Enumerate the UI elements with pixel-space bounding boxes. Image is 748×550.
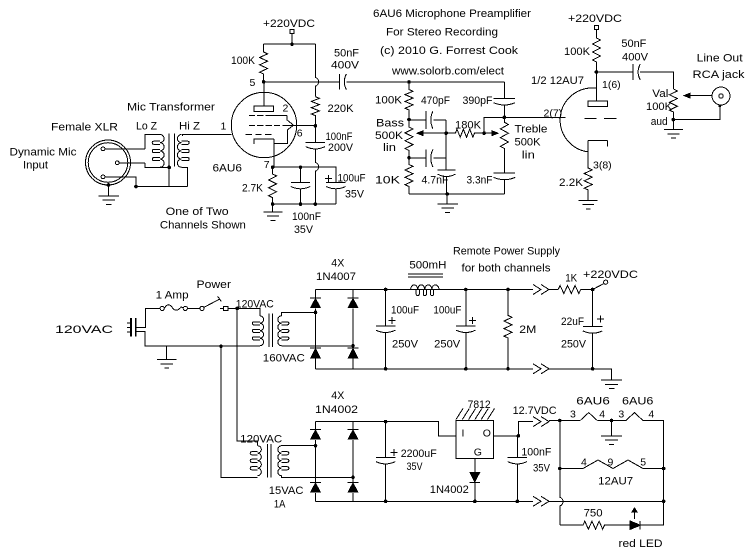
label G [474, 446, 482, 458]
svg-text:1: 1 [221, 121, 227, 133]
svg-text:7812: 7812 [468, 399, 491, 411]
capacitor C13 22uF 250V [583, 290, 602, 369]
svg-text:5: 5 [640, 457, 646, 469]
wire vol bottom to jack [673, 106, 719, 120]
label 22uF [561, 316, 584, 328]
plus sign C11 [388, 317, 395, 324]
svg-text:4X: 4X [331, 258, 345, 270]
junction dot 12AU7 plate node [595, 70, 599, 74]
bridge1 top rail [316, 289, 534, 291]
svg-text:1N4007: 1N4007 [316, 271, 356, 283]
label for both channels [462, 263, 552, 275]
svg-text:750: 750 [584, 508, 603, 520]
label Dynamic Mic [10, 147, 78, 159]
label 100K [231, 55, 256, 67]
7812 ground lead [474, 458, 476, 472]
svg-text:For Stereo Recording: For Stereo Recording [386, 27, 498, 39]
svg-text:35V: 35V [345, 189, 365, 201]
12AU7 plate lead [595, 72, 597, 101]
svg-text:3: 3 [570, 409, 576, 421]
label +220VDC psu [583, 269, 638, 281]
label 6AU6 [213, 163, 243, 175]
wire B+ right leg with hop [315, 44, 318, 96]
label 1N4002 b2 [315, 404, 358, 416]
6AU6 plate [254, 106, 273, 111]
svg-text:Remote Power Supply: Remote Power Supply [453, 246, 560, 258]
6AU6 control grid [246, 134, 272, 136]
T2 secondary top lead [282, 312, 316, 315]
pin label 1 [221, 121, 227, 133]
bass wiper arrow [417, 131, 445, 136]
svg-text:120VAC: 120VAC [240, 434, 282, 446]
T3 core [267, 444, 271, 477]
capacitor C2 100nF 200V [306, 142, 325, 149]
ground XLR [99, 196, 119, 204]
diode D3 [310, 348, 322, 359]
svg-text:500K: 500K [375, 130, 404, 142]
junction dot 12AU7 heater right [662, 467, 666, 471]
label red LED [619, 538, 663, 550]
capacitor C8 390pF [494, 82, 516, 117]
pin label 4 12au7 [581, 457, 587, 469]
capacitor C5 470pF upper [409, 111, 433, 129]
wire neutral down to T3 [221, 346, 258, 477]
wire heater return [549, 500, 664, 502]
label 120VAC T3 [240, 434, 282, 446]
capacitor C10 50nF 400V [633, 64, 640, 80]
wire bottom rail right [549, 369, 612, 380]
pin label 9 12au7 [608, 457, 614, 469]
svg-text:One of Two: One of Two [166, 206, 229, 218]
6AU6 cathode lead [273, 139, 275, 167]
svg-text:Channels Shown: Channels Shown [160, 219, 246, 231]
svg-text:RCA jack: RCA jack [693, 69, 746, 81]
pin label 4 h2 [648, 409, 654, 421]
7812 hatching [456, 409, 495, 420]
svg-text:180K: 180K [455, 120, 482, 132]
wire pin3 to ground bus [105, 177, 136, 187]
connector out bottom [533, 364, 549, 374]
svg-text:250V: 250V [561, 339, 587, 351]
regulator U1 7812 box [456, 421, 494, 459]
label 750 [584, 508, 603, 520]
wire gnd stem [272, 204, 274, 212]
resistor R14 750 [583, 521, 630, 529]
svg-text:500mH: 500mH [409, 260, 446, 272]
pin label 4 h1 [599, 409, 605, 421]
junction dot bridge1 ac2 [351, 344, 355, 348]
label 15VAC [269, 485, 304, 497]
12AU7 cathode [588, 141, 607, 147]
6AU6 screen grid [249, 124, 293, 126]
ground bus wire [136, 186, 188, 188]
wire pin2 to transformer [119, 162, 145, 164]
label 4X [331, 258, 345, 270]
junction dot wiper tap [444, 131, 448, 135]
wire terminal to T2 primary [228, 308, 260, 315]
wire terminal down [291, 34, 293, 45]
label lin treble [522, 150, 535, 162]
ground heater [601, 436, 622, 444]
label O [483, 428, 491, 440]
wire screen to rail [293, 116, 315, 143]
transformer secondary coil [177, 135, 189, 168]
label 390pF [463, 95, 493, 107]
svg-text:4: 4 [648, 409, 654, 421]
junction dot tone top [407, 80, 411, 84]
title line 3 [380, 45, 519, 57]
wire plate node [264, 81, 340, 83]
junction dot tone gnd [445, 192, 449, 196]
6AU6 cathode [254, 139, 274, 144]
svg-text:1/2 12AU7: 1/2 12AU7 [531, 75, 584, 87]
label 500mH [409, 260, 446, 272]
junction dot screen node [314, 124, 318, 128]
capacitor C9 3.3nF [494, 173, 516, 194]
wire LED to return [640, 501, 663, 525]
svg-text:Hi Z: Hi Z [179, 121, 200, 133]
svg-text:6AU6: 6AU6 [213, 163, 243, 175]
title line 2 [386, 27, 498, 39]
12AU7 envelope arc [560, 88, 596, 152]
ground psu top [601, 380, 622, 388]
capacitor C3 100nF 35V [291, 167, 310, 204]
label 12.7VDC [513, 405, 557, 417]
transformer secondary bottom lead [182, 167, 188, 186]
label 500K treble [515, 137, 542, 149]
svg-text:6AU6: 6AU6 [576, 396, 610, 408]
label 35V c3 [294, 224, 314, 236]
wire cap to vol pot [640, 72, 673, 89]
svg-text:120VAC: 120VAC [55, 324, 113, 336]
label Remote Power Supply [453, 246, 560, 258]
label 10K [375, 175, 401, 187]
label 400V out [622, 52, 649, 64]
plus sign 100uF [325, 175, 332, 182]
wire switch to terminal [187, 307, 223, 309]
svg-text:160VAC: 160VAC [263, 353, 305, 365]
svg-text:390pF: 390pF [463, 95, 493, 107]
svg-text:100uF: 100uF [433, 305, 461, 317]
label 1N4002 D9 [430, 484, 469, 496]
junction dot heater mid [610, 419, 614, 423]
pin label 5 [250, 77, 256, 89]
svg-text:15VAC: 15VAC [269, 485, 304, 497]
label +220VDC 12AU7 [568, 13, 622, 25]
wire caps junction [434, 120, 447, 170]
label Channels Shown [160, 219, 246, 231]
6AU6 suppressor tie [287, 115, 293, 125]
transformer primary coil [152, 135, 164, 168]
pot R11 Vol 100K [669, 89, 677, 120]
label One of Two [166, 206, 229, 218]
label 100nF [326, 131, 353, 143]
transformer core line [173, 134, 175, 167]
svg-text:35V: 35V [407, 461, 424, 473]
label Lo Z [136, 121, 157, 133]
svg-text:500K: 500K [515, 137, 542, 149]
svg-text:35V: 35V [294, 224, 314, 236]
svg-text:1 Amp: 1 Amp [156, 289, 189, 301]
treble wiper arrow [484, 131, 498, 136]
svg-text:250V: 250V [434, 339, 461, 351]
plus sign C12 [469, 317, 476, 324]
label 50nF out [621, 38, 646, 50]
svg-text:+220VDC: +220VDC [583, 269, 638, 281]
wire hot down to T3 [237, 308, 257, 445]
svg-text:1K: 1K [565, 273, 578, 285]
label 100K tone [375, 95, 403, 107]
resistor R2 220K [311, 97, 319, 126]
svg-text:2200uF: 2200uF [401, 448, 437, 460]
pin label 3 h2 [618, 409, 624, 421]
svg-text:100uF: 100uF [391, 305, 419, 317]
label 220K [328, 103, 355, 115]
junction dot reg out [517, 434, 521, 438]
12AU7 grid [584, 117, 616, 119]
RCA jack pin [719, 94, 723, 98]
T3 primary coil [250, 446, 261, 476]
svg-text:+220VDC: +220VDC [568, 13, 622, 25]
label I [462, 428, 465, 440]
label 1K [565, 273, 578, 285]
12AU7 plate [588, 101, 608, 106]
svg-text:400V: 400V [331, 60, 360, 72]
label 2200uF [401, 448, 437, 460]
XLR connector J1 inner shell [88, 143, 128, 183]
junction dot gnd bus 1 [271, 202, 275, 206]
svg-text:2.2K: 2.2K [559, 177, 584, 189]
junction dot bridge2 ac1 [314, 444, 318, 448]
svg-text:lin: lin [383, 142, 396, 154]
wire LED branch bottom [560, 524, 583, 526]
label 2.7K [242, 183, 264, 195]
wire between heaters [597, 420, 626, 422]
junction dot 2M bot [506, 367, 510, 371]
junction dot D9 bot [473, 500, 477, 504]
LED D10 [630, 521, 640, 530]
heater 6AU6 no2 [626, 413, 643, 421]
wire tone gnd stem [446, 194, 448, 204]
label 1 Amp [156, 289, 189, 301]
XLR pin 3 [101, 175, 105, 179]
svg-text:50nF: 50nF [334, 48, 359, 60]
terminal +220VDC 12AU7 [594, 25, 598, 29]
svg-text:(c) 2010 G. Forrest Cook: (c) 2010 G. Forrest Cook [380, 45, 519, 57]
svg-text:Treble: Treble [515, 124, 548, 136]
T2 secondary bottom lead [282, 345, 354, 347]
svg-text:+220VDC: +220VDC [263, 18, 315, 30]
label 50nF [334, 48, 359, 60]
title line 4 [391, 66, 504, 78]
junction dot heater return right [662, 500, 666, 504]
svg-text:2(7): 2(7) [544, 108, 563, 120]
heater 12AU7 [583, 460, 643, 469]
label Female XLR [51, 122, 118, 134]
T2 primary coil [252, 316, 263, 346]
ground vol [664, 130, 683, 138]
svg-text:120VAC: 120VAC [236, 299, 274, 311]
diode D1 [310, 298, 322, 309]
svg-text:Line Out: Line Out [697, 52, 743, 64]
junction dot vol bottom [672, 118, 676, 122]
svg-text:G: G [474, 446, 482, 458]
svg-text:220K: 220K [328, 103, 355, 115]
label 120VAC switched [236, 299, 274, 311]
junction dot XLR shell ground [107, 183, 111, 187]
bridge1 right leg [352, 290, 354, 369]
plus sign C13 [597, 316, 604, 323]
diode D2 [347, 298, 359, 309]
svg-text:200V: 200V [328, 142, 354, 154]
6AU6 suppressor cathode tie [274, 125, 293, 143]
bridge1 bottom rail [316, 368, 534, 370]
svg-text:2M: 2M [519, 324, 536, 336]
label 6AU6 h1 [576, 396, 610, 408]
wire B+ top rail [264, 43, 316, 45]
label Power [197, 279, 232, 291]
svg-text:12AU7: 12AU7 [598, 476, 633, 488]
capacitor C14 2200uF 35V [376, 422, 395, 502]
wire 12AU7 heater row [560, 468, 583, 470]
label 250V C12 [434, 339, 461, 351]
capacitor C6 470pF lower [409, 149, 433, 167]
wire heater top [549, 420, 580, 422]
junction dot cap5 bot [384, 367, 388, 371]
capacitor C1 50nF 400V [339, 74, 346, 90]
T3 secondary coil [278, 446, 289, 476]
junction dot 12AU7 heater left [558, 467, 562, 471]
diode D9 1N4002 [470, 473, 481, 502]
label Hi Z [179, 121, 200, 133]
12AU7 cathode lead [587, 141, 589, 163]
junction dot R 2M top [506, 288, 510, 292]
resistor R4 100K tone [405, 82, 413, 120]
svg-text:12.7VDC: 12.7VDC [513, 405, 557, 417]
svg-text:Val: Val [652, 88, 668, 100]
label 100K 12AU7 [564, 46, 591, 58]
svg-text:I: I [462, 428, 465, 440]
junction dot 2200uF bot [384, 500, 388, 504]
wire cathode node [273, 167, 336, 182]
label 35V C15 [533, 462, 551, 474]
svg-text:50nF: 50nF [621, 38, 646, 50]
label 250V C13 [561, 339, 587, 351]
label 4X b2 [331, 390, 345, 402]
svg-text:Lo Z: Lo Z [136, 121, 157, 133]
pin label 6 [297, 128, 303, 140]
label RCA jack [693, 69, 746, 81]
svg-text:250V: 250V [392, 339, 419, 351]
label Input [23, 160, 48, 172]
label Vol [652, 88, 668, 100]
label 120VAC mains [55, 324, 113, 336]
label aud [651, 116, 668, 128]
label 7812 [468, 399, 491, 411]
svg-text:2.7K: 2.7K [242, 183, 264, 195]
svg-text:35V: 35V [533, 462, 551, 474]
T2 secondary coil [278, 316, 289, 346]
XLR connector J1 outer shell [86, 140, 131, 185]
junction dot bridge2 ac2 [351, 476, 355, 480]
junction dot B+ out [591, 288, 595, 292]
wire tone bottom [409, 193, 504, 195]
junction dot cap5 top [384, 288, 388, 292]
terminal +220VDC [290, 29, 294, 33]
RCA jack outer [712, 87, 730, 105]
wire heater left vertical with hop [560, 421, 563, 526]
wire 200V cap to ground with hop [315, 149, 318, 204]
wire 12AU7 heater right [643, 468, 664, 470]
svg-text:Input: Input [23, 160, 48, 172]
XLR pin 2 [115, 161, 119, 165]
svg-text:22uF: 22uF [561, 316, 584, 328]
junction dot shield [167, 166, 171, 170]
diode D4 [347, 348, 359, 359]
capacitor C4 100uF 35V [326, 182, 345, 204]
label 470pF [421, 95, 450, 107]
junction dot cap6 bot [464, 367, 468, 371]
resistor R10 2.2K [584, 163, 592, 196]
pin label 7 [264, 159, 270, 171]
diode D8 [347, 482, 359, 493]
junction dot neutral tap [219, 344, 223, 348]
transformer primary bottom lead [145, 163, 169, 168]
T3 secondary bottom lead [282, 476, 354, 478]
svg-text:3: 3 [618, 409, 624, 421]
svg-text:2: 2 [283, 103, 289, 115]
label 2M [519, 324, 536, 336]
diode D6 [347, 429, 359, 440]
bridge2 left leg [315, 422, 317, 502]
wire heater gnd stem [611, 421, 613, 437]
wire vol gnd stem [672, 120, 674, 130]
label 100K vol [646, 101, 673, 113]
label lin bass [383, 142, 396, 154]
svg-text:400V: 400V [622, 52, 649, 64]
ground tone stack [437, 204, 457, 212]
wire conn to 1K [549, 289, 558, 291]
label 3.3nF [467, 175, 493, 187]
svg-text:100nF: 100nF [521, 446, 551, 458]
pin label 1(6) [602, 79, 621, 91]
pot R5 Bass 500K [405, 120, 413, 158]
wire heater right [643, 421, 664, 502]
svg-text:lin: lin [522, 150, 535, 162]
junction dot cap6 top [464, 288, 468, 292]
wire cathode gnd bus [273, 203, 336, 205]
svg-text:7: 7 [264, 159, 270, 171]
connector heater top [533, 417, 549, 427]
svg-text:4X: 4X [331, 390, 345, 402]
plus sign C14 [391, 449, 398, 456]
label 100uF C12 [433, 305, 461, 317]
bridge2 right leg [352, 422, 354, 502]
svg-text:aud: aud [651, 116, 668, 128]
svg-text:3(8): 3(8) [593, 160, 612, 172]
svg-text:Power: Power [197, 279, 232, 291]
junction dot C15 bot [516, 500, 520, 504]
label 100nF C15 [521, 446, 551, 458]
svg-text:Bass: Bass [376, 118, 405, 130]
junction dot cathode node [271, 165, 275, 169]
resistor R7 180K [446, 129, 484, 137]
label Line Out [697, 52, 743, 64]
label 2.2K [559, 177, 584, 189]
transformer secondary top lead to grid [183, 135, 232, 137]
ground mains [157, 360, 177, 368]
svg-text:100K: 100K [646, 101, 673, 113]
